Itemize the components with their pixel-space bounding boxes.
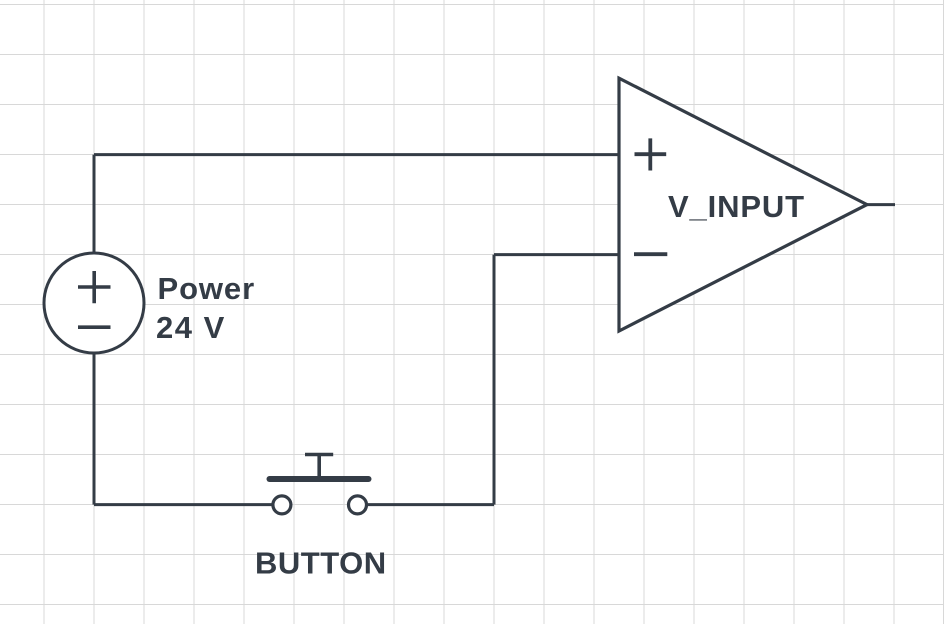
svg-text:Power: Power xyxy=(158,271,256,306)
svg-text:V_INPUT: V_INPUT xyxy=(668,189,805,224)
svg-text:BUTTON: BUTTON xyxy=(255,546,387,581)
svg-text:24 V: 24 V xyxy=(156,310,226,345)
